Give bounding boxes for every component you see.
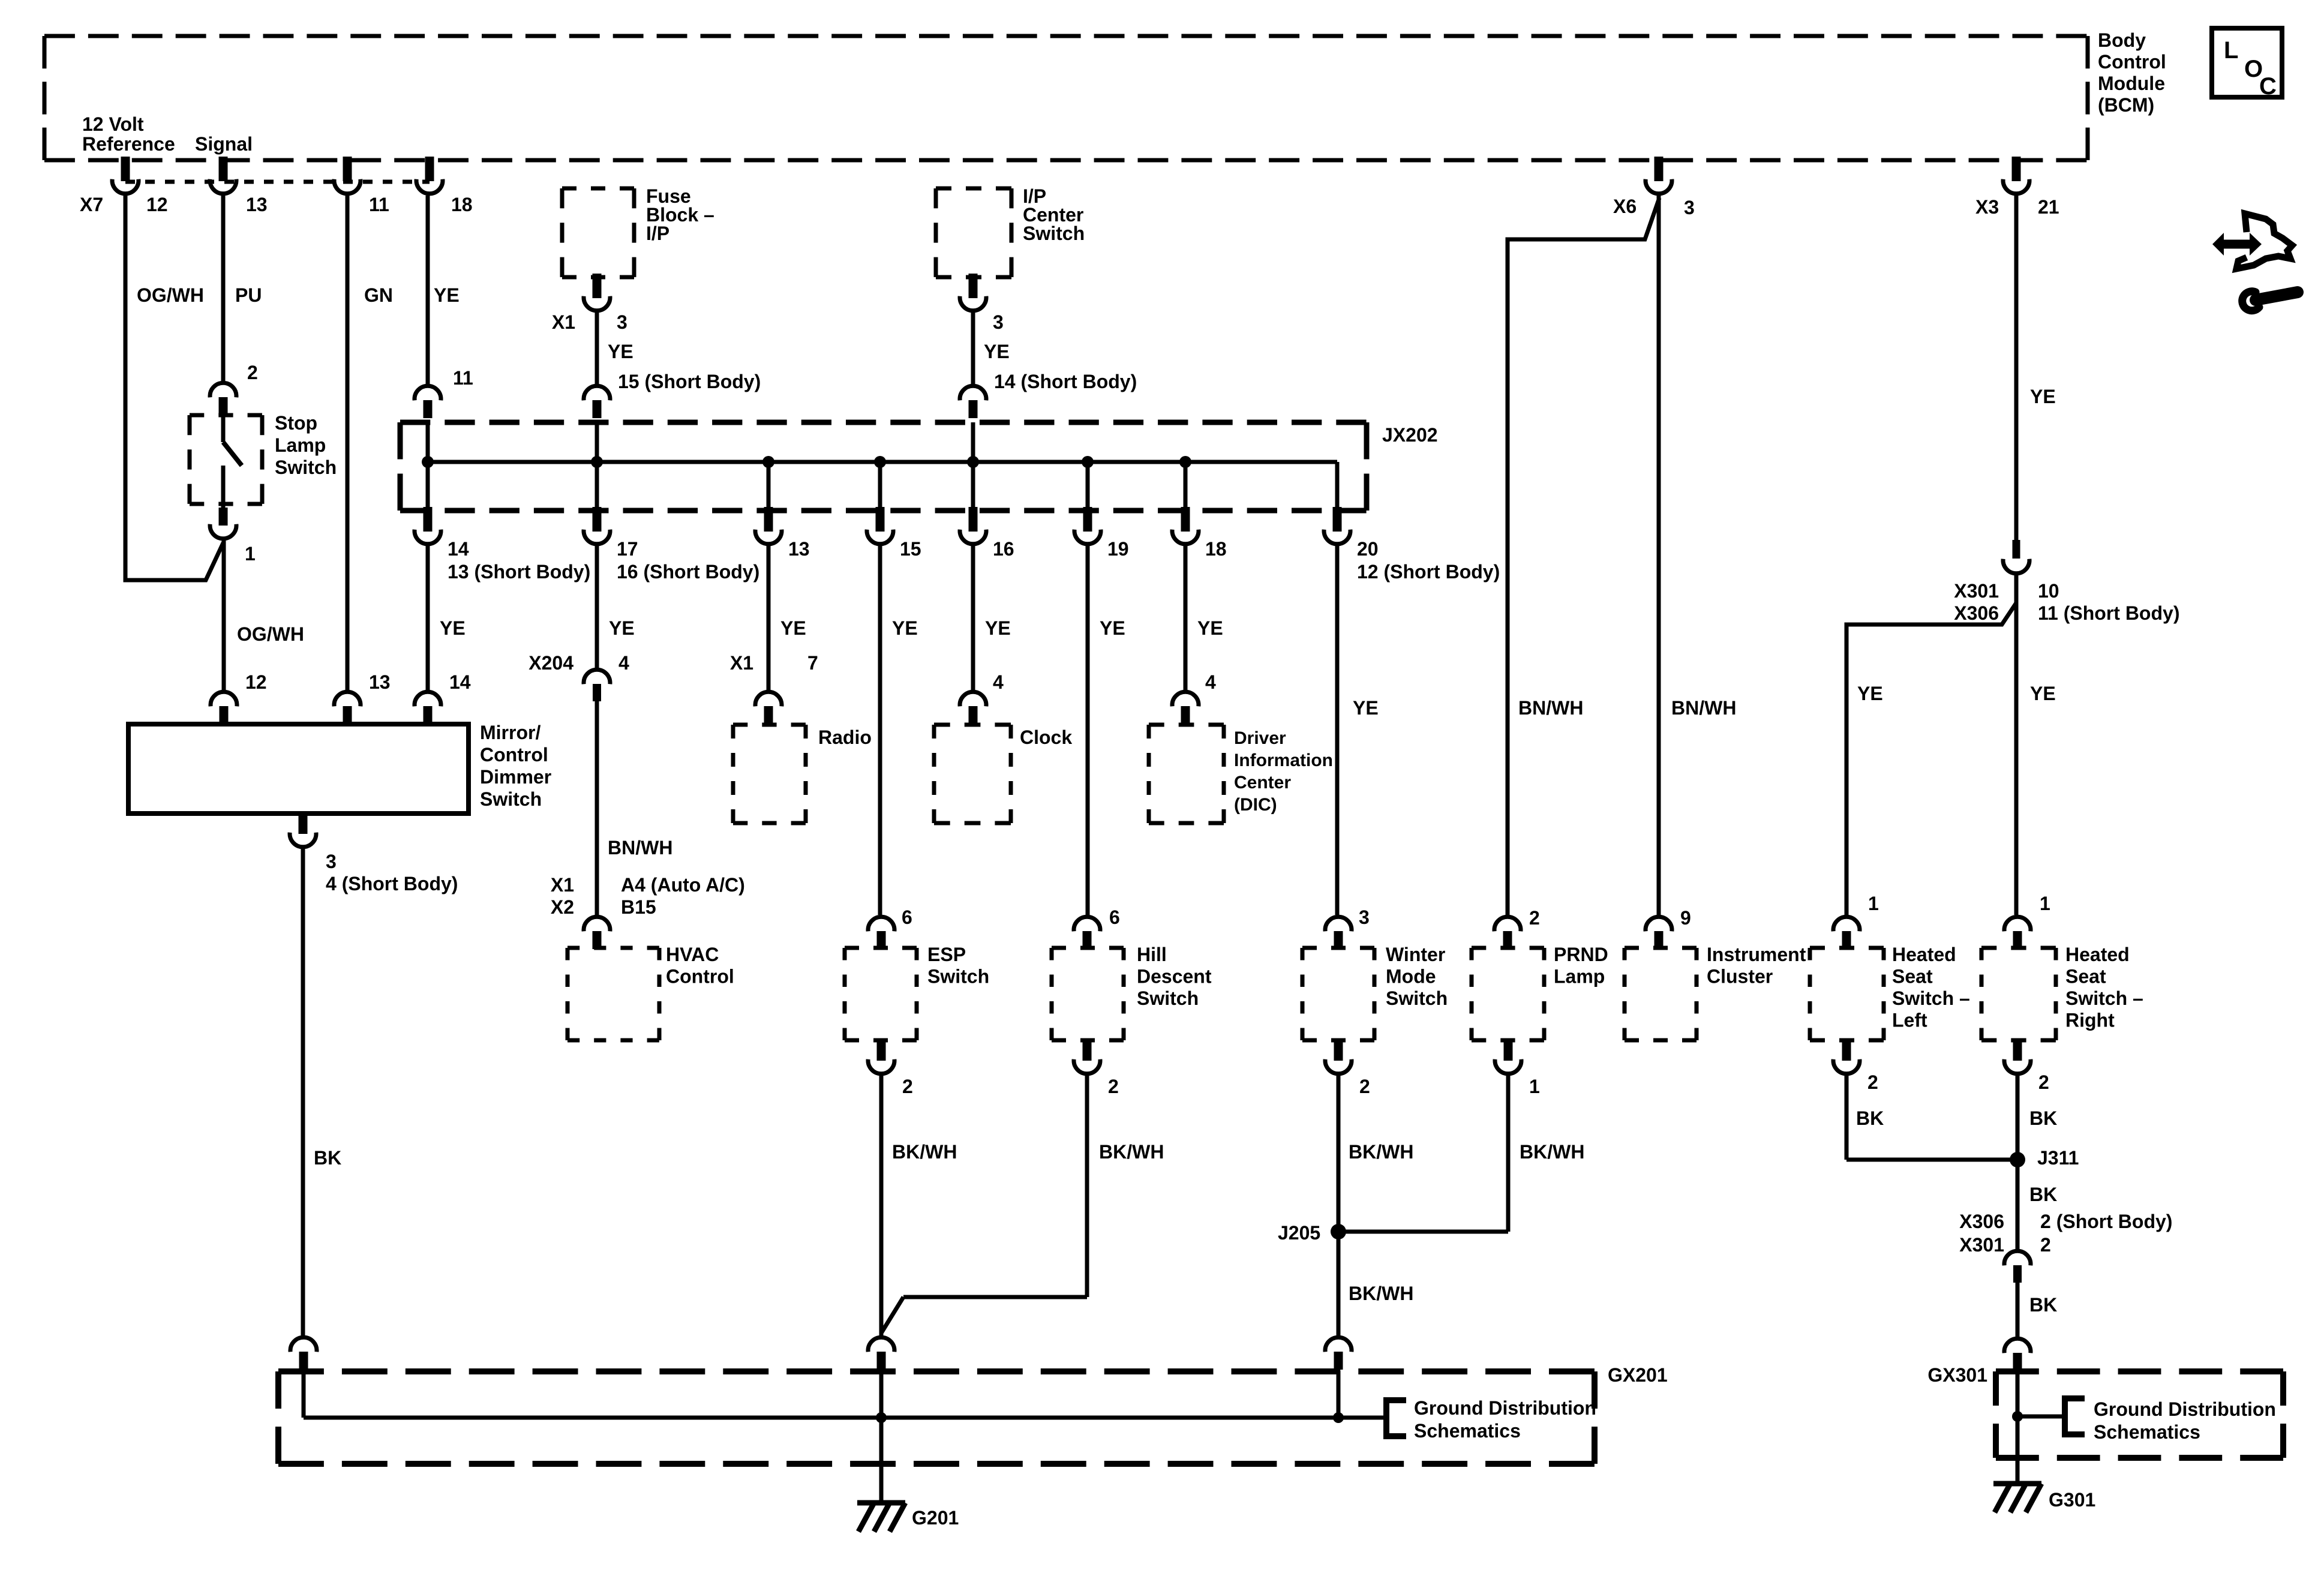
svg-text:X306: X306: [1959, 1211, 2004, 1232]
svg-text:17: 17: [617, 538, 638, 560]
svg-text:BK: BK: [2029, 1294, 2057, 1316]
svg-text:PU: PU: [235, 284, 262, 306]
svg-text:X301: X301: [1954, 580, 1999, 602]
svg-text:X1: X1: [551, 874, 574, 896]
svg-text:YE: YE: [2030, 386, 2056, 407]
svg-text:15: 15: [900, 538, 921, 560]
svg-text:X1: X1: [552, 311, 575, 333]
svg-text:BK: BK: [2029, 1184, 2057, 1205]
svg-text:14: 14: [448, 538, 469, 560]
svg-text:YE: YE: [892, 617, 918, 639]
svg-text:A4 (Auto A/C): A4 (Auto A/C): [621, 874, 745, 896]
svg-text:Body: Body: [2098, 29, 2146, 51]
svg-text:2: 2: [2038, 1071, 2049, 1093]
svg-text:Cluster: Cluster: [1707, 966, 1773, 987]
svg-text:Ground Distribution: Ground Distribution: [1414, 1397, 1596, 1419]
svg-text:ESP: ESP: [927, 944, 966, 965]
svg-text:Seat: Seat: [1892, 966, 1933, 987]
svg-text:X6: X6: [1613, 196, 1637, 217]
svg-text:2: 2: [1529, 907, 1540, 929]
svg-text:Switch: Switch: [1137, 987, 1199, 1009]
svg-text:B15: B15: [621, 896, 656, 918]
svg-text:13: 13: [246, 194, 268, 215]
svg-text:3: 3: [993, 311, 1004, 333]
svg-text:Control: Control: [480, 744, 548, 766]
svg-text:7: 7: [807, 652, 818, 674]
svg-text:18: 18: [1205, 538, 1227, 560]
svg-text:BK/WH: BK/WH: [1349, 1283, 1413, 1304]
svg-text:Control: Control: [2098, 51, 2166, 73]
svg-text:4: 4: [993, 671, 1004, 693]
svg-text:BK: BK: [2029, 1107, 2057, 1129]
svg-text:3: 3: [326, 851, 337, 872]
svg-text:JX202: JX202: [1382, 424, 1438, 446]
svg-text:6: 6: [1109, 906, 1120, 928]
svg-text:YE: YE: [2030, 683, 2056, 704]
svg-text:4: 4: [1205, 671, 1216, 693]
svg-text:BN/WH: BN/WH: [1518, 697, 1583, 719]
svg-text:Lamp: Lamp: [275, 434, 326, 456]
svg-text:Switch: Switch: [927, 966, 989, 987]
svg-text:YE: YE: [1197, 617, 1223, 639]
svg-text:(DIC): (DIC): [1234, 795, 1277, 815]
svg-text:YE: YE: [608, 341, 633, 362]
svg-text:11: 11: [369, 194, 389, 215]
svg-text:(BCM): (BCM): [2098, 94, 2154, 116]
svg-text:Information: Information: [1234, 751, 1333, 770]
svg-text:14 (Short Body): 14 (Short Body): [994, 371, 1137, 392]
svg-text:Clock: Clock: [1020, 727, 1072, 748]
svg-text:YE: YE: [1353, 697, 1379, 719]
svg-text:6: 6: [902, 906, 912, 928]
svg-text:Descent: Descent: [1137, 966, 1212, 987]
svg-text:YE: YE: [434, 284, 460, 306]
svg-text:Module: Module: [2098, 73, 2165, 94]
svg-text:10: 10: [2038, 580, 2059, 602]
svg-text:X1: X1: [730, 652, 753, 674]
svg-text:Schematics: Schematics: [1414, 1420, 1521, 1442]
svg-text:X306: X306: [1954, 602, 1999, 624]
svg-text:Dimmer: Dimmer: [480, 766, 551, 788]
svg-text:Instrument: Instrument: [1707, 944, 1806, 965]
svg-text:4: 4: [618, 652, 629, 674]
svg-text:12 (Short Body): 12 (Short Body): [1357, 561, 1500, 583]
svg-text:12: 12: [245, 671, 267, 693]
svg-text:19: 19: [1107, 538, 1129, 560]
svg-text:16: 16: [993, 538, 1014, 560]
svg-text:YE: YE: [1857, 683, 1883, 704]
svg-text:2: 2: [2040, 1234, 2051, 1256]
svg-text:2: 2: [1867, 1071, 1878, 1093]
svg-text:OG/WH: OG/WH: [137, 284, 204, 306]
svg-text:Winter: Winter: [1386, 944, 1445, 965]
svg-text:11: 11: [453, 367, 473, 389]
svg-text:Mirror/: Mirror/: [480, 722, 541, 743]
svg-text:16 (Short Body): 16 (Short Body): [617, 561, 759, 583]
svg-text:14: 14: [449, 671, 471, 693]
svg-text:13: 13: [369, 671, 391, 693]
svg-text:Schematics: Schematics: [2094, 1421, 2200, 1443]
svg-text:Driver: Driver: [1234, 728, 1286, 748]
svg-text:Mode: Mode: [1386, 966, 1436, 987]
svg-text:20: 20: [1357, 538, 1379, 560]
svg-text:GX201: GX201: [1608, 1364, 1668, 1386]
svg-text:Switch –: Switch –: [1892, 987, 1970, 1009]
svg-text:HVAC: HVAC: [666, 944, 719, 965]
svg-text:2: 2: [902, 1076, 913, 1097]
svg-text:GN: GN: [364, 284, 393, 306]
svg-text:Switch: Switch: [1023, 223, 1085, 244]
svg-text:C: C: [2259, 73, 2277, 100]
svg-text:12 Volt: 12 Volt: [82, 113, 144, 135]
svg-text:OG/WH: OG/WH: [237, 623, 304, 645]
svg-text:2: 2: [1359, 1076, 1370, 1097]
svg-text:PRND: PRND: [1554, 944, 1608, 965]
svg-text:Control: Control: [666, 966, 734, 987]
svg-text:13 (Short Body): 13 (Short Body): [448, 561, 590, 583]
svg-text:Right: Right: [2065, 1010, 2115, 1031]
svg-text:Switch: Switch: [1386, 987, 1448, 1009]
svg-text:Reference: Reference: [82, 133, 175, 155]
svg-text:1: 1: [2040, 893, 2050, 914]
svg-text:3: 3: [617, 311, 627, 333]
svg-text:YE: YE: [985, 617, 1011, 639]
svg-text:BK/WH: BK/WH: [1520, 1141, 1584, 1163]
svg-text:X7: X7: [80, 194, 103, 215]
svg-text:BN/WH: BN/WH: [608, 837, 672, 858]
svg-text:BK/WH: BK/WH: [892, 1141, 957, 1163]
svg-text:Seat: Seat: [2065, 966, 2106, 987]
svg-text:Lamp: Lamp: [1554, 966, 1605, 987]
svg-text:BK/WH: BK/WH: [1099, 1141, 1164, 1163]
svg-text:YE: YE: [440, 617, 466, 639]
svg-text:11 (Short Body): 11 (Short Body): [2038, 602, 2179, 624]
svg-text:13: 13: [788, 538, 810, 560]
svg-text:3: 3: [1359, 906, 1370, 928]
svg-text:X301: X301: [1959, 1234, 2004, 1256]
svg-text:4 (Short Body): 4 (Short Body): [326, 873, 458, 894]
svg-text:Stop: Stop: [275, 412, 317, 434]
svg-text:BN/WH: BN/WH: [1671, 697, 1736, 719]
svg-text:X3: X3: [1975, 196, 1999, 218]
svg-text:15 (Short Body): 15 (Short Body): [618, 371, 761, 392]
svg-text:21: 21: [2038, 196, 2059, 218]
svg-text:J205: J205: [1278, 1222, 1320, 1244]
svg-text:3: 3: [1684, 197, 1695, 218]
svg-text:Hill: Hill: [1137, 944, 1167, 965]
svg-text:G201: G201: [912, 1507, 959, 1529]
svg-text:Center: Center: [1234, 773, 1291, 792]
svg-text:12: 12: [146, 194, 168, 215]
svg-text:G301: G301: [2049, 1489, 2095, 1511]
svg-text:Ground Distribution: Ground Distribution: [2094, 1398, 2276, 1420]
svg-text:2: 2: [247, 362, 258, 383]
svg-text:18: 18: [451, 194, 473, 215]
svg-text:2 (Short Body): 2 (Short Body): [2040, 1211, 2172, 1232]
svg-text:Radio: Radio: [818, 727, 872, 748]
svg-text:BK: BK: [314, 1147, 341, 1169]
svg-text:1: 1: [1868, 893, 1879, 914]
svg-text:YE: YE: [780, 617, 806, 639]
svg-text:9: 9: [1680, 907, 1691, 929]
svg-text:2: 2: [1108, 1076, 1119, 1097]
svg-text:YE: YE: [609, 617, 635, 639]
svg-text:Switch –: Switch –: [2065, 987, 2143, 1009]
svg-text:J311: J311: [2037, 1147, 2079, 1169]
svg-text:X2: X2: [551, 896, 574, 918]
svg-text:I/P: I/P: [646, 223, 669, 244]
svg-text:Switch: Switch: [275, 457, 337, 478]
svg-text:BK: BK: [1856, 1107, 1884, 1129]
svg-text:X204: X204: [529, 652, 574, 674]
svg-text:1: 1: [1529, 1076, 1540, 1097]
svg-text:L: L: [2224, 37, 2238, 64]
svg-text:Left: Left: [1892, 1010, 1927, 1031]
svg-text:GX301: GX301: [1927, 1364, 1987, 1386]
svg-text:Heated: Heated: [1892, 944, 1956, 965]
svg-text:1: 1: [245, 543, 256, 565]
svg-text:Heated: Heated: [2065, 944, 2130, 965]
svg-text:YE: YE: [984, 341, 1010, 362]
svg-text:BK/WH: BK/WH: [1349, 1141, 1413, 1163]
svg-text:Switch: Switch: [480, 788, 542, 810]
svg-text:YE: YE: [1100, 617, 1125, 639]
svg-text:Signal: Signal: [195, 133, 253, 155]
